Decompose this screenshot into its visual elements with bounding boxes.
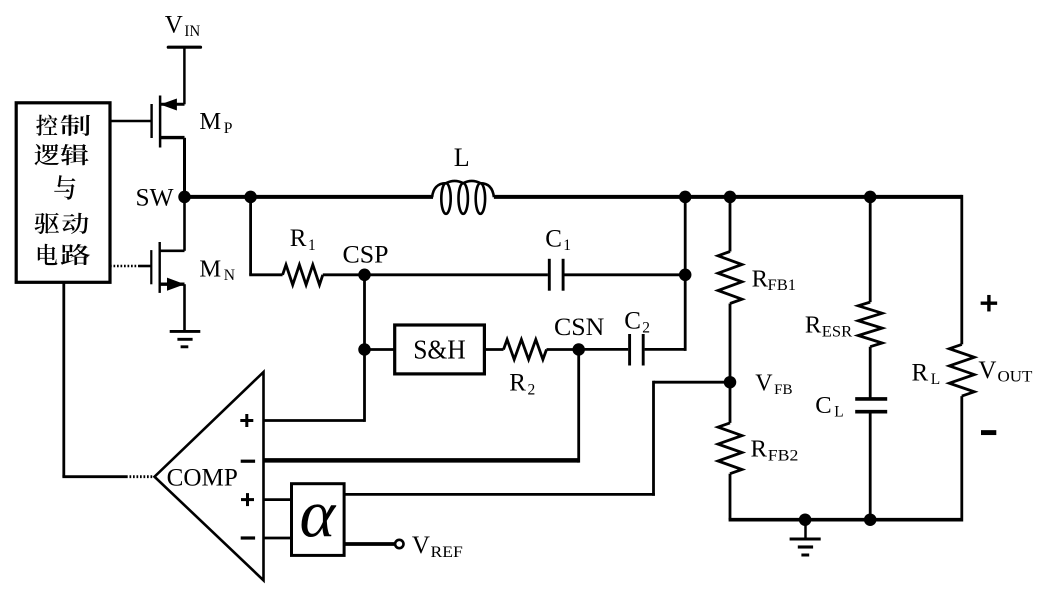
svg-text:N: N	[224, 267, 235, 284]
svg-text:L: L	[834, 404, 843, 421]
svg-text:P: P	[224, 120, 233, 137]
svg-text:V: V	[165, 11, 183, 38]
svg-text:FB2: FB2	[768, 447, 799, 464]
svg-text:R: R	[751, 436, 768, 463]
svg-text:V: V	[412, 532, 430, 559]
svg-text:2: 2	[528, 381, 536, 398]
svg-text:1: 1	[563, 237, 571, 254]
svg-text:V: V	[755, 371, 773, 397]
svg-text:COMP: COMP	[167, 462, 238, 491]
svg-text:R: R	[805, 311, 822, 338]
svg-text:CSN: CSN	[554, 312, 604, 341]
svg-text:R: R	[752, 265, 769, 292]
svg-text:CSP: CSP	[343, 241, 389, 268]
svg-text:FB: FB	[774, 382, 792, 398]
svg-text:SW: SW	[136, 183, 175, 212]
svg-text:2: 2	[642, 319, 650, 336]
svg-text:C: C	[545, 225, 562, 252]
svg-text:α: α	[299, 476, 336, 552]
svg-text:R: R	[290, 225, 307, 252]
svg-text:FB1: FB1	[768, 275, 797, 294]
svg-text:REF: REF	[431, 544, 463, 561]
svg-text:M: M	[199, 255, 221, 282]
svg-text:IN: IN	[184, 23, 200, 40]
svg-text:OUT: OUT	[998, 368, 1033, 385]
svg-text:ESR: ESR	[822, 323, 853, 340]
svg-text:1: 1	[308, 237, 316, 254]
svg-text:R: R	[912, 359, 929, 386]
svg-text:V: V	[978, 357, 996, 384]
svg-text:C: C	[624, 308, 641, 335]
svg-text:C: C	[815, 392, 831, 419]
svg-text:S&H: S&H	[413, 334, 466, 364]
svg-text:L: L	[454, 143, 470, 172]
svg-text:L: L	[931, 371, 940, 388]
svg-text:M: M	[199, 108, 221, 135]
svg-text:R: R	[509, 370, 526, 397]
